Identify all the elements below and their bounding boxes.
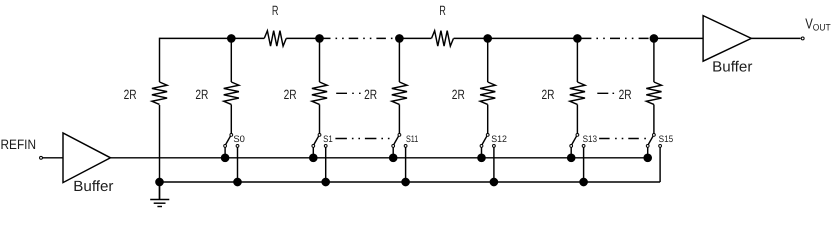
svg-text:S11: S11 [406, 133, 418, 144]
svg-text:Buffer: Buffer [712, 59, 752, 75]
switch S13 common contact [576, 134, 579, 137]
switch S0 blade [226, 136, 231, 144]
node top rail junction 4 [484, 35, 491, 42]
node GND rail junction at S11 [402, 178, 409, 185]
wire S1 right throw to GND rail [325, 147, 327, 182]
wire S12 right throw to GND rail [493, 147, 495, 182]
node REFIN rail junction at S13 [568, 154, 575, 161]
wire top rail node C to R2 [399, 37, 431, 39]
svg-text:Buffer: Buffer [73, 179, 113, 195]
switch S13 throw to GND rail [582, 145, 585, 148]
svg-text:R: R [272, 3, 279, 18]
wire dash-dot omitted 2R branches (left group) [336, 92, 361, 94]
wire dash-dot omitted switches S2-S10 [335, 138, 390, 140]
switch S11 throw to GND rail [404, 145, 407, 148]
node REFIN rail junction at S15 [644, 154, 651, 161]
switch S1 throw to REFIN rail [312, 145, 315, 148]
svg-text:2R: 2R [195, 87, 208, 102]
switch S15 throw to REFIN rail [646, 145, 649, 148]
switch S0 throw to GND rail [236, 145, 239, 148]
wire branch bit S11 upper (top rail to 2R) [398, 38, 400, 82]
svg-text:2R: 2R [542, 87, 555, 102]
op-amp output Buffer U2 [703, 16, 751, 62]
switch S15 throw to GND rail [659, 145, 662, 148]
node top rail junction 6 [650, 35, 657, 42]
resistor 2R branch bit S15 [646, 82, 661, 104]
wire S12 left throw stub to REFIN rail [481, 147, 483, 158]
wire REFIN terminal to buffer [42, 157, 63, 159]
switch S15 common contact [653, 134, 656, 137]
resistor 2R branch bit S12 [480, 82, 495, 104]
resistor 2R branch bit S0 [224, 82, 239, 104]
wire branch 1 upper (top rail corner to 2R) [159, 38, 161, 82]
node GND rail junction at S13 [580, 178, 587, 185]
wire S1 left throw stub to REFIN rail [312, 147, 314, 158]
node GND rail junction at S12 [490, 178, 497, 185]
wire dash-dot omitted switch S14 [599, 138, 646, 140]
wire top rail dash-dot continuation (omitted stages) [321, 37, 399, 39]
switch S0 common contact [230, 134, 233, 137]
wire branch bit S13 upper (top rail to 2R) [576, 38, 578, 82]
node GND rail junction at S0 [234, 178, 241, 185]
svg-text:2R: 2R [619, 87, 632, 102]
wire branch bit S0 upper (top rail to 2R) [230, 38, 232, 82]
node top rail junction 2 [316, 35, 323, 42]
switch S13 throw to REFIN rail [570, 145, 573, 148]
switch S11 common contact [398, 134, 401, 137]
wire branch bit S0 lower (2R to switch common) [230, 105, 232, 134]
svg-text:2R: 2R [364, 87, 377, 102]
switch S12 throw to GND rail [493, 145, 496, 148]
wire S11 left throw stub to REFIN rail [392, 147, 394, 158]
node REFIN rail junction at S11 [390, 154, 397, 161]
node top rail junction 1 [228, 35, 235, 42]
wire top rail node B to dash break [286, 37, 321, 39]
node VOUT output terminal [801, 37, 804, 40]
switch S13 blade [572, 136, 577, 144]
node GND rail junction at ground [156, 178, 163, 185]
resistor 2R branch bit S13 [570, 82, 585, 104]
wire S0 left throw stub to REFIN rail [224, 147, 226, 158]
node top rail junction 3 [396, 35, 403, 42]
wire S11 right throw to GND rail [405, 147, 407, 182]
node REFIN rail junction at S0 [222, 154, 229, 161]
switch S12 blade [482, 136, 487, 144]
switch S11 blade [394, 136, 399, 144]
resistor R (R1) in top rail [264, 31, 286, 46]
node GND rail junction at S1 [322, 178, 329, 185]
svg-text:R: R [439, 3, 446, 18]
svg-text:REFIN: REFIN [1, 137, 37, 152]
switch S1 throw to GND rail [324, 145, 327, 148]
wire branch bit S11 lower (2R to switch common) [398, 105, 400, 134]
node REFIN rail junction at S1 [310, 154, 317, 161]
wire buffer to VOUT terminal [751, 37, 800, 39]
resistor 2R branch bit S11 [392, 82, 407, 104]
wire branch bit S12 lower (2R to switch common) [487, 105, 489, 134]
svg-text:S13: S13 [583, 133, 598, 144]
svg-text:2R: 2R [124, 87, 137, 102]
wire top rail from ladder start to node A [160, 37, 265, 39]
svg-text:S0: S0 [233, 133, 245, 144]
svg-text:2R: 2R [452, 87, 465, 102]
ground symbol [150, 182, 169, 207]
wire S0 right throw to GND rail [237, 147, 239, 182]
svg-text:S1: S1 [323, 133, 333, 144]
switch S1 common contact [318, 134, 321, 137]
wire S15 right throw to GND rail [659, 147, 661, 182]
wire branch bit S1 upper (top rail to 2R) [319, 38, 321, 82]
op-amp input Buffer U1 [63, 133, 111, 183]
wire REFIN buffer output rail [111, 157, 648, 159]
wire S13 right throw to GND rail [583, 147, 585, 182]
wire top rail node F to output buffer [654, 37, 703, 39]
wire branch bit S15 upper (top rail to 2R) [653, 38, 655, 82]
resistor 2R branch bit S1 [312, 82, 327, 104]
wire ground rail [160, 181, 661, 183]
wire S13 left throw stub to REFIN rail [570, 147, 572, 158]
switch S0 throw to REFIN rail [224, 145, 227, 148]
node REFIN input terminal [40, 156, 43, 159]
wire S15 left throw stub to REFIN rail [647, 147, 649, 158]
resistor R (R2) in top rail [432, 31, 454, 46]
wire branch 1 lower (2R through REFIN rail to GND rail) [159, 105, 161, 200]
wire branch bit S15 lower (2R to switch common) [653, 105, 655, 134]
wire branch bit S13 lower (2R to switch common) [576, 105, 578, 134]
svg-text:OUT: OUT [813, 22, 831, 33]
wire dash-dot omitted 2R branches (right group) [597, 92, 614, 94]
wire branch bit S12 upper (top rail to 2R) [487, 38, 489, 82]
resistor 2R terminator branch [152, 82, 167, 104]
switch S12 throw to REFIN rail [480, 145, 483, 148]
node REFIN rail junction at S12 [478, 154, 485, 161]
svg-text:S12: S12 [491, 133, 507, 144]
wire branch bit S1 lower (2R to switch common) [319, 105, 321, 134]
svg-text:S15: S15 [659, 133, 674, 144]
switch S1 blade [314, 136, 319, 144]
switch S11 throw to REFIN rail [392, 145, 395, 148]
node top rail junction 5 [574, 35, 581, 42]
switch S12 common contact [486, 134, 489, 137]
wire top rail dash-dot continuation (omitted stages) [581, 37, 654, 39]
svg-text:2R: 2R [284, 87, 297, 102]
wire top rail node D to node E [454, 37, 578, 39]
switch S15 blade [648, 136, 653, 144]
